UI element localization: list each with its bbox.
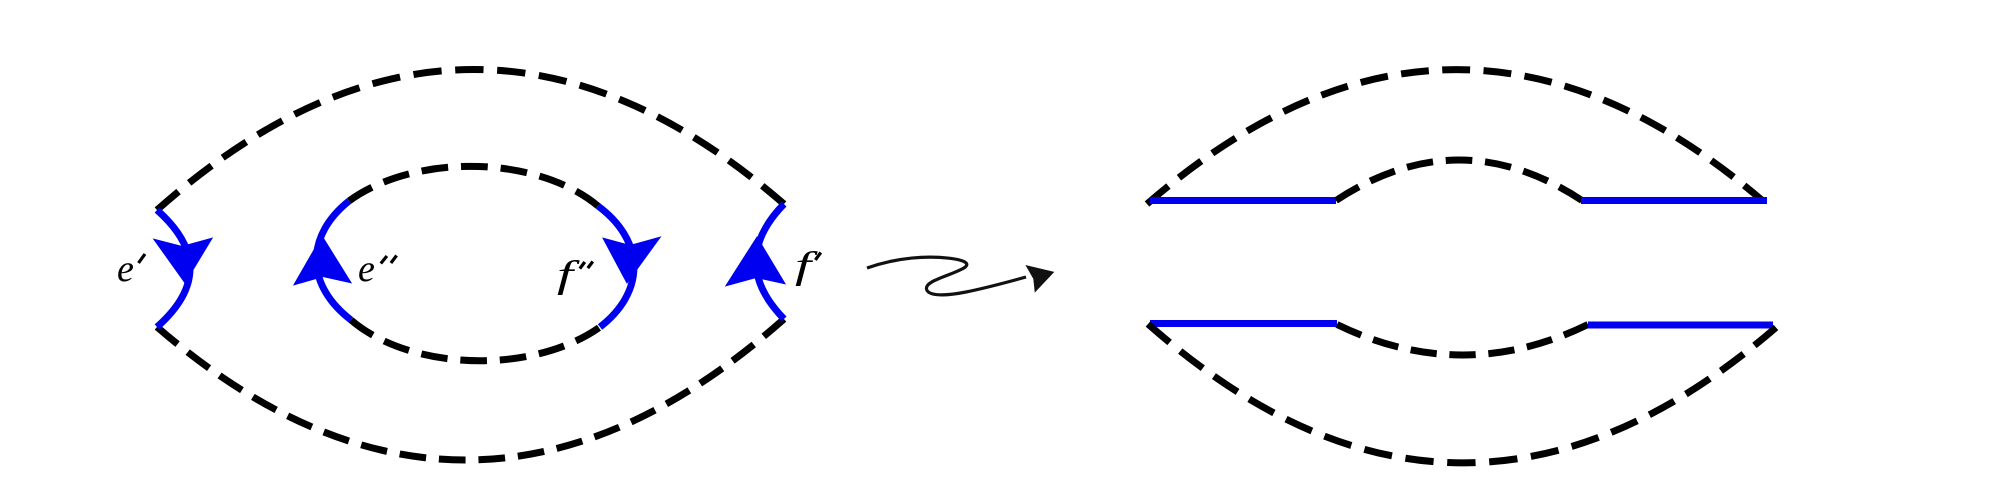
blue corner arc e' (outer eye left tip) (157, 210, 190, 327)
arrowhead e'' (pointing up) (295, 237, 350, 284)
squiggle curve (867, 257, 1026, 295)
top lens outer dashed arc (1147, 70, 1764, 204)
bottom lens dashed middle dip (1337, 325, 1588, 356)
inner ellipse bottom dashed arc (351, 320, 600, 361)
arrowhead e' (pointing down) (155, 239, 211, 282)
svg-text:e: e (117, 248, 134, 290)
blue corner arc f' (outer eye right tip) (756, 204, 784, 319)
arrowhead f' (pointing up) (727, 238, 784, 285)
outer eye upper dashed curve (157, 69, 784, 210)
blue corner arc e'' (inner ellipse left tip) (316, 201, 351, 320)
svg-text:e: e (358, 248, 375, 290)
inner ellipse top dashed arc (349, 166, 598, 206)
label f'' (557, 253, 581, 296)
squiggle arrowhead (1027, 266, 1053, 291)
outer eye lower dashed curve (157, 319, 784, 460)
bottom lens outer dashed arc (1148, 324, 1776, 463)
top lens blue left segment (1150, 197, 1336, 204)
label f' (795, 244, 819, 287)
bottom lens blue left segment (1150, 320, 1337, 327)
top lens dashed middle bump (1336, 160, 1582, 201)
arrowhead f'' (pointing down) (604, 238, 659, 282)
top lens blue right segment (1581, 197, 1767, 204)
blue corner arc f'' (inner ellipse right tip) (598, 206, 634, 327)
bottom lens blue right segment (1588, 322, 1773, 329)
